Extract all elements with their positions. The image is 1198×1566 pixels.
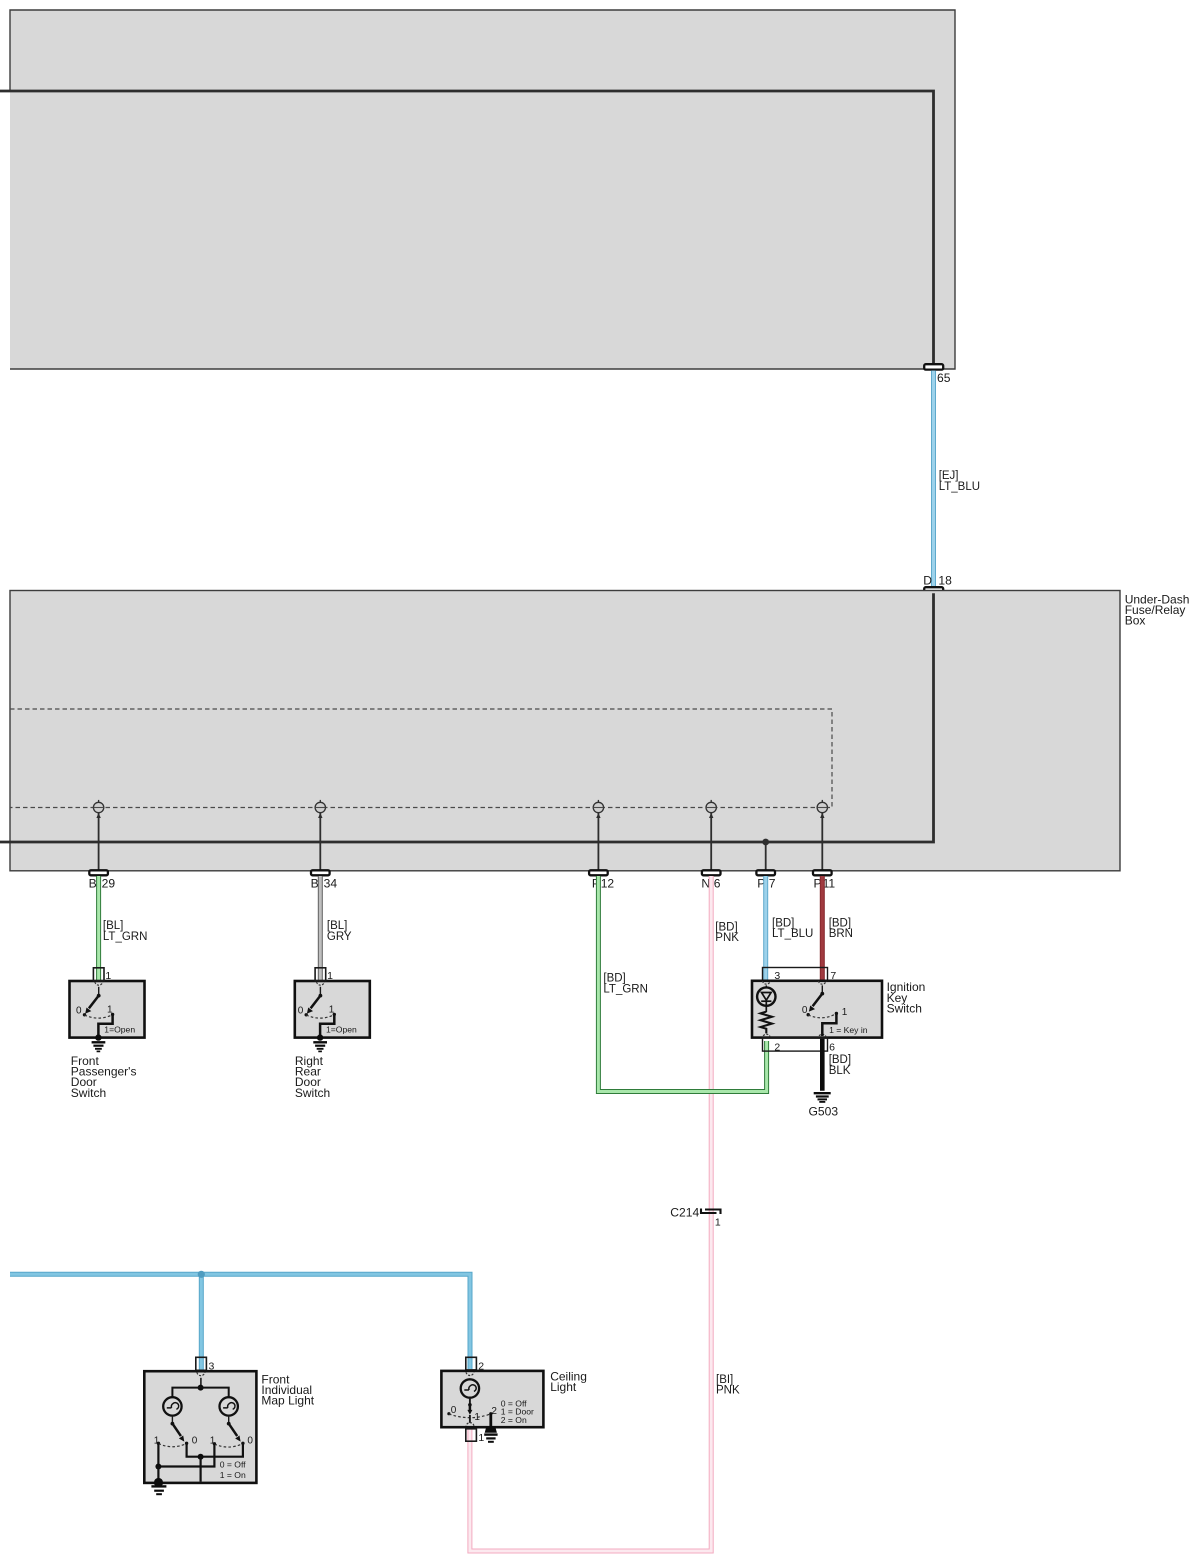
svg-text:1: 1	[474, 1412, 480, 1423]
svg-text:29: 29	[102, 876, 116, 890]
wire [EJ] LT_BLU from 65 to D18	[934, 371, 981, 586]
lamp box ceiling light	[441, 1371, 543, 1427]
svg-text:Light: Light	[550, 1380, 577, 1394]
svg-text:2: 2	[774, 1041, 780, 1053]
wire dark from D18 to internal bus	[0, 593, 934, 842]
switch box ignition key switch	[752, 981, 882, 1038]
svg-text:Box: Box	[1125, 614, 1146, 628]
svg-text:BRN: BRN	[829, 928, 853, 940]
svg-text:LT_BLU: LT_BLU	[772, 928, 813, 940]
bulb ceiling light	[461, 1379, 479, 1397]
svg-text:LT_BLU: LT_BLU	[939, 481, 980, 493]
svg-text:C214: C214	[670, 1205, 699, 1219]
svg-text:6: 6	[829, 1041, 835, 1053]
label [BI] PNK	[716, 1374, 740, 1397]
box under-dash fuse/relay	[10, 591, 1189, 871]
junction node P7 on bus	[762, 839, 769, 870]
resistor ignition key switch	[761, 1012, 772, 1034]
svg-text:1: 1	[327, 970, 333, 982]
off wiring map light	[187, 1443, 243, 1481]
switch contacts right rear door	[298, 987, 357, 1041]
svg-text:1 = On: 1 = On	[220, 1470, 246, 1480]
ground G503	[809, 1093, 839, 1118]
svg-text:0: 0	[451, 1405, 457, 1416]
connector P 7	[756, 870, 775, 890]
connector B 34	[311, 870, 338, 890]
ground right rear door switch	[313, 1042, 327, 1051]
pin arcs ignition key switch	[762, 981, 826, 1037]
connector 65	[924, 364, 951, 385]
svg-text:Switch: Switch	[71, 1086, 106, 1100]
terminal circle B29	[93, 800, 103, 870]
pin bracket 3/7 ignition key switch	[763, 968, 837, 982]
connector C214	[670, 1205, 721, 1228]
svg-text:0: 0	[76, 1005, 82, 1016]
svg-text:12: 12	[601, 876, 615, 890]
svg-text:2: 2	[491, 1406, 497, 1417]
key switch contacts ignition	[802, 985, 868, 1036]
svg-text:B: B	[311, 876, 319, 890]
terminal circle P12	[593, 800, 603, 870]
svg-text:1: 1	[105, 970, 111, 982]
svg-text:1=Open: 1=Open	[326, 1025, 357, 1035]
svg-text:34: 34	[324, 876, 338, 890]
label ignition key switch	[887, 980, 926, 1015]
svg-text:1: 1	[842, 1007, 848, 1018]
wire LT_BLU bus to map light and ceiling light	[10, 1271, 470, 1370]
wire [BD] BLK pin6 to G503	[822, 1039, 851, 1091]
connector D 18	[923, 573, 952, 592]
switch ceiling light	[447, 1398, 497, 1423]
LED indicator ignition key switch	[757, 985, 775, 1012]
pin 2 ceiling light	[466, 1357, 484, 1372]
wire [BL] LT_GRN B29 to door switch	[99, 876, 148, 980]
svg-text:Map Light: Map Light	[261, 1394, 314, 1408]
pin 1 front passenger's door switch	[93, 968, 111, 985]
common wiring to pin 1 ceiling light	[466, 1415, 474, 1426]
lamp box front individual map light	[144, 1371, 256, 1483]
wire [BD] LT_BLU P7 to ignition key switch pin3	[766, 876, 814, 984]
wire [BD] LT_GRN P12 to ignition key switch pin2	[598, 876, 766, 1092]
pin bracket 2/6 ignition key switch	[763, 1038, 836, 1054]
label front passenger's door switch	[71, 1054, 137, 1100]
terminal circle B34	[315, 800, 325, 870]
svg-text:LT_GRN: LT_GRN	[603, 983, 648, 995]
svg-text:6: 6	[714, 876, 721, 890]
terminal circle N6	[706, 800, 716, 870]
ground branch position 2 ceiling light	[484, 1414, 497, 1442]
label front individual map light	[261, 1372, 314, 1407]
bulb left map light	[163, 1397, 181, 1415]
svg-text:B: B	[89, 876, 97, 890]
svg-text:1 = Key in: 1 = Key in	[829, 1025, 868, 1035]
svg-text:Switch: Switch	[295, 1086, 330, 1100]
svg-text:18: 18	[938, 573, 952, 587]
pin 3 front individual map light	[196, 1357, 215, 1372]
dashed internal boundary	[10, 709, 832, 808]
wire [BD]/[BI] PNK N6 to C214 to ceiling light	[470, 876, 739, 1551]
ground front passenger's door switch	[92, 1042, 106, 1051]
pin 1 ceiling light	[466, 1429, 485, 1444]
bulb right map light	[220, 1397, 238, 1415]
pin 1 right rear door switch	[315, 968, 333, 985]
svg-text:PNK: PNK	[716, 1385, 740, 1397]
svg-text:LT_GRN: LT_GRN	[103, 931, 148, 943]
terminal circle P11	[817, 800, 827, 870]
svg-text:0: 0	[192, 1436, 198, 1447]
label right rear door switch	[295, 1054, 330, 1100]
legend map light	[220, 1459, 246, 1480]
svg-text:G503: G503	[809, 1105, 839, 1119]
svg-text:D: D	[923, 573, 932, 587]
wire dark bus inside top box	[0, 91, 934, 363]
svg-text:1=Open: 1=Open	[104, 1025, 135, 1035]
wire [BL] GRY B34 to door switch	[320, 876, 352, 980]
connector B 29	[89, 870, 116, 890]
svg-text:1: 1	[478, 1432, 484, 1444]
switch left map light	[154, 1416, 198, 1447]
svg-text:Switch: Switch	[887, 1001, 922, 1015]
switch contacts front passenger's door	[76, 987, 135, 1041]
svg-text:0 = Off: 0 = Off	[220, 1459, 246, 1469]
svg-text:1: 1	[715, 1216, 721, 1228]
svg-text:0: 0	[298, 1005, 304, 1016]
box top fuse/relay	[10, 10, 955, 369]
connector N 6	[701, 870, 720, 890]
internal feed node map light	[172, 1378, 228, 1398]
switch box right rear door	[295, 981, 370, 1038]
label ceiling light	[550, 1369, 587, 1394]
legend ceiling light	[501, 1398, 534, 1425]
svg-text:PNK: PNK	[715, 932, 739, 944]
svg-text:2 = On: 2 = On	[501, 1415, 527, 1425]
wire [BD] BRN P11 to ignition key switch pin7	[822, 876, 853, 984]
on wiring map light	[155, 1443, 214, 1481]
svg-text:7: 7	[769, 876, 776, 890]
svg-text:BLK: BLK	[829, 1065, 851, 1077]
svg-text:GRY: GRY	[327, 931, 352, 943]
ground map light	[151, 1478, 166, 1494]
svg-text:0: 0	[247, 1436, 253, 1447]
svg-text:65: 65	[937, 371, 951, 385]
switch box front passenger's door	[70, 981, 145, 1038]
switch right map light	[210, 1416, 254, 1447]
connector P 11	[813, 870, 835, 890]
connector P 12	[589, 870, 614, 890]
